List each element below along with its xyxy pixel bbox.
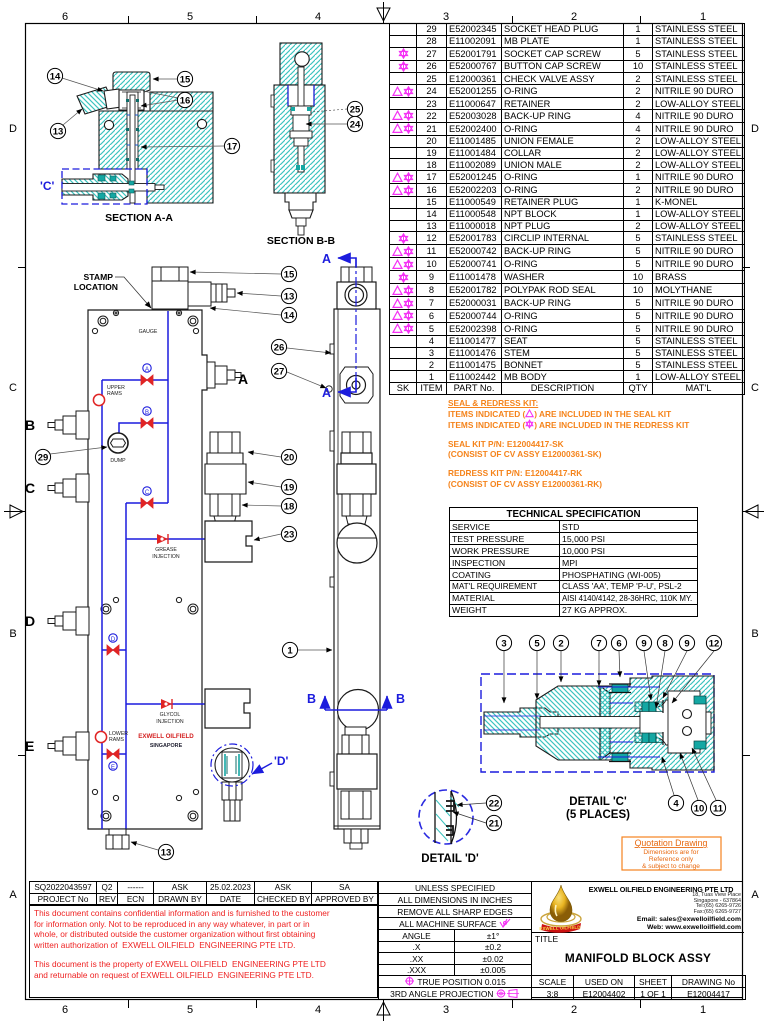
- balloon 1 (MB body): [298, 649, 332, 651]
- svg-text:10: 10: [694, 804, 705, 815]
- svg-text:SECTION A-A: SECTION A-A: [105, 212, 173, 224]
- section cut arrow A (bottom): [338, 378, 356, 392]
- detail C boundary box (blue dashed): [62, 169, 147, 204]
- svg-text:(5 PLACES): (5 PLACES): [566, 809, 630, 821]
- svg-text:11: 11: [713, 804, 724, 815]
- section A-A cut line (dash-dot): [355, 258, 357, 392]
- svg-text:DETAIL 'C': DETAIL 'C': [569, 796, 627, 808]
- svg-text:INJECTION: INJECTION: [156, 719, 184, 725]
- balloon 13 (gauge fitting): [237, 293, 281, 296]
- balloon 16: [177, 92, 192, 107]
- svg-text:GAUGE: GAUGE: [139, 329, 158, 335]
- NPT block item 14 (left fitting, hatched): [77, 87, 114, 114]
- balloon 15 (gauge valve): [190, 272, 281, 274]
- balloon 15: [177, 71, 192, 86]
- svg-text:B: B: [396, 692, 405, 706]
- balloon leaders B-B: [306, 109, 347, 124]
- svg-text:17: 17: [227, 142, 238, 153]
- top plate (hatched): [280, 43, 322, 85]
- gauge valve stack on top: [152, 281, 188, 309]
- quotation drawing stamp: [622, 837, 721, 870]
- svg-text:19: 19: [284, 483, 295, 494]
- section B-B cut line with arrows: [337, 709, 379, 711]
- seal & redress kit notes: [448, 398, 748, 489]
- port A valve on right: [207, 362, 241, 388]
- glycol injection block: [205, 689, 250, 728]
- bottom drain fitting: [106, 829, 129, 849]
- wire: valve A branch: [102, 379, 168, 381]
- retainer plug octagon: [340, 367, 373, 403]
- title block: [29, 881, 743, 998]
- svg-text:STAMP: STAMP: [84, 272, 114, 282]
- svg-text:'C': 'C': [40, 179, 55, 193]
- seat plug (white): [668, 691, 706, 753]
- balloon 23: [254, 534, 281, 540]
- check valve assy in detail-C zone (hatched rod): [62, 174, 128, 200]
- balloon 14: [47, 68, 62, 83]
- port B fitting: [48, 411, 89, 439]
- tolerance / standards table: [378, 881, 532, 1000]
- svg-text:3: 3: [501, 639, 506, 650]
- bolt hole right: [197, 119, 206, 128]
- stem channel: [127, 92, 138, 169]
- wire: glycol injection branch: [126, 703, 213, 705]
- balloon leaders A-A: [62, 78, 224, 147]
- bottom fitting: [285, 193, 316, 210]
- port C fitting: [48, 474, 89, 502]
- balloon 21: [453, 812, 486, 823]
- confidentiality note (red): [29, 904, 378, 998]
- svg-text:15: 15: [180, 75, 191, 86]
- balloon 22: [457, 803, 486, 805]
- balloon 13 (bottom plug): [131, 842, 158, 850]
- collar + union stack lower: [345, 727, 366, 735]
- valve symbol B: [141, 407, 153, 428]
- svg-text:2: 2: [558, 639, 563, 650]
- svg-text:1: 1: [287, 646, 293, 657]
- MB plate (main hatched body): [99, 92, 213, 203]
- svg-text:'D': 'D': [274, 754, 289, 768]
- plug item 15 (top cap, hatched): [113, 72, 150, 92]
- svg-text:Quotation Drawing: Quotation Drawing: [635, 838, 708, 848]
- top gauge valve: [341, 267, 372, 282]
- bottom nut: [344, 829, 368, 843]
- bore: [540, 717, 640, 729]
- wire: valve D cross branch: [102, 649, 126, 651]
- balloon 20: [248, 452, 281, 457]
- svg-text:26: 26: [274, 343, 285, 354]
- svg-text:SINGAPORE: SINGAPORE: [150, 743, 183, 749]
- svg-text:DETAIL 'D': DETAIL 'D': [421, 853, 479, 865]
- svg-text:20: 20: [284, 453, 295, 464]
- valve symbol C: [141, 487, 153, 508]
- svg-text:& subject to change: & subject to change: [642, 863, 700, 870]
- union stack upper: [342, 432, 371, 453]
- svg-text:21: 21: [489, 819, 500, 830]
- svg-text:D: D: [111, 637, 116, 643]
- glycol injection check valve symbol: [161, 699, 172, 709]
- svg-text:5: 5: [534, 639, 540, 650]
- svg-text:22: 22: [489, 799, 500, 810]
- balloon 24: [347, 116, 362, 131]
- svg-text:DUMP: DUMP: [110, 458, 126, 464]
- svg-text:LOCATION: LOCATION: [74, 282, 118, 292]
- union pieces under cap: [119, 90, 144, 110]
- wire: grease injection branch: [126, 538, 205, 540]
- balloon 27: [287, 372, 326, 388]
- seal dots on stem: [126, 99, 139, 161]
- bolt holes: [92, 310, 198, 821]
- seal stacks (items 5-12): [612, 684, 706, 762]
- company logo: [536, 883, 588, 933]
- svg-text:D: D: [25, 613, 35, 629]
- valve symbol D: [107, 634, 119, 655]
- svg-text:14: 14: [284, 311, 295, 322]
- stem rod (hatched): [484, 708, 558, 737]
- grease injection check valve symbol: [157, 534, 168, 544]
- svg-text:9: 9: [684, 639, 689, 650]
- svg-text:B: B: [145, 410, 149, 416]
- company / title area: [531, 881, 743, 998]
- svg-text:A: A: [238, 371, 248, 387]
- svg-text:13: 13: [161, 848, 172, 859]
- svg-text:18: 18: [284, 502, 295, 513]
- seal item 22 (back-up ring): [446, 801, 454, 835]
- balloons bottom with leaders: [662, 748, 716, 800]
- svg-text:RAMS: RAMS: [107, 391, 123, 397]
- svg-text:15: 15: [284, 270, 295, 281]
- svg-text:B: B: [307, 692, 316, 706]
- svg-text:RAMS: RAMS: [109, 737, 125, 743]
- ball handle lower: [338, 690, 379, 731]
- wire: valve C branch: [126, 502, 168, 504]
- lower rams indicator: [95, 731, 106, 742]
- main body (hatched): [274, 85, 325, 193]
- wire: gauge header line: [167, 311, 169, 503]
- hydraulic lines (blue): [102, 311, 213, 829]
- balloon 17: [224, 138, 239, 153]
- svg-text:Dimensions are for: Dimensions are for: [643, 849, 699, 856]
- svg-text:E: E: [25, 738, 34, 754]
- svg-text:A: A: [145, 367, 149, 373]
- grease injection block item 23: [205, 521, 252, 562]
- svg-text:SECTION B-B: SECTION B-B: [267, 235, 336, 247]
- svg-text:A: A: [322, 252, 331, 266]
- svg-text:24: 24: [350, 120, 361, 131]
- svg-text:INJECTION: INJECTION: [152, 554, 180, 560]
- svg-text:23: 23: [284, 530, 295, 541]
- body wall chords: [435, 791, 457, 844]
- svg-text:16: 16: [180, 96, 191, 107]
- project info table: [29, 881, 378, 906]
- seal retainers (black): [609, 684, 663, 762]
- port E fitting: [48, 732, 89, 760]
- svg-text:C: C: [145, 490, 150, 496]
- technical specification table: [449, 507, 698, 617]
- stem trumpet profile: [640, 700, 674, 745]
- valve symbol A: [141, 364, 153, 385]
- balloon 29 (dump): [50, 447, 107, 454]
- MB body outline: [88, 310, 207, 829]
- svg-text:C: C: [25, 480, 35, 496]
- blue accent lines: [484, 687, 660, 757]
- balloon 25: [347, 101, 362, 116]
- svg-text:27: 27: [274, 367, 285, 378]
- section cut arrow A (top): [338, 258, 356, 271]
- union assembly items 18/19/20: [205, 432, 246, 524]
- bonnet cone (hatched): [536, 686, 610, 760]
- balloon 19: [248, 482, 281, 487]
- body: [334, 309, 380, 829]
- port D fitting: [48, 607, 89, 635]
- wire: lower rams run: [125, 503, 127, 829]
- svg-text:EXWELL OILFIELD: EXWELL OILFIELD: [138, 733, 194, 740]
- svg-text:4: 4: [673, 799, 679, 810]
- svg-text:9: 9: [641, 639, 646, 650]
- svg-text:E: E: [111, 765, 115, 771]
- valve symbol E: [107, 749, 119, 771]
- svg-text:A: A: [322, 386, 331, 400]
- wire: valve E cross branch: [102, 753, 126, 755]
- svg-text:13: 13: [284, 292, 295, 303]
- bolt hole left: [104, 120, 113, 129]
- side tabs: [271, 95, 274, 107]
- side tabs: [330, 431, 334, 451]
- detail D highlight circle: [211, 744, 253, 786]
- boundary box (blue dashed): [481, 674, 714, 772]
- svg-text:14: 14: [50, 72, 61, 83]
- balloon 18: [242, 505, 281, 506]
- svg-text:GLYCOL: GLYCOL: [160, 712, 181, 718]
- balloon 14: [210, 308, 281, 315]
- ball handle upper: [337, 523, 377, 563]
- wire: upper rams run: [101, 380, 103, 829]
- wire: dump branch via valve B: [119, 423, 168, 434]
- svg-text:B: B: [25, 417, 35, 433]
- svg-text:8: 8: [662, 639, 667, 650]
- svg-text:25: 25: [350, 105, 361, 116]
- svg-text:7: 7: [596, 639, 601, 650]
- detail D boundary circle (blue dashed): [419, 790, 473, 844]
- balloons top row with leaders: [504, 651, 714, 708]
- svg-text:6: 6: [616, 639, 621, 650]
- hatch fragment: [436, 797, 459, 841]
- balloon 26: [287, 348, 331, 353]
- stem: [298, 67, 304, 172]
- dump valve: [108, 433, 128, 453]
- BOM parts list table: [389, 23, 745, 395]
- upper rams indicator: [93, 394, 104, 405]
- svg-text:12: 12: [709, 639, 720, 650]
- balloon 13: [50, 123, 65, 138]
- spring pocket: [288, 85, 314, 106]
- svg-text:29: 29: [38, 453, 49, 464]
- svg-text:13: 13: [53, 127, 64, 138]
- MB body block (hatched): [600, 676, 714, 770]
- svg-text:Reference only: Reference only: [649, 856, 694, 863]
- svg-text:GREASE: GREASE: [155, 547, 177, 553]
- check valve at detail D: [215, 748, 249, 821]
- valve insert: [291, 106, 311, 115]
